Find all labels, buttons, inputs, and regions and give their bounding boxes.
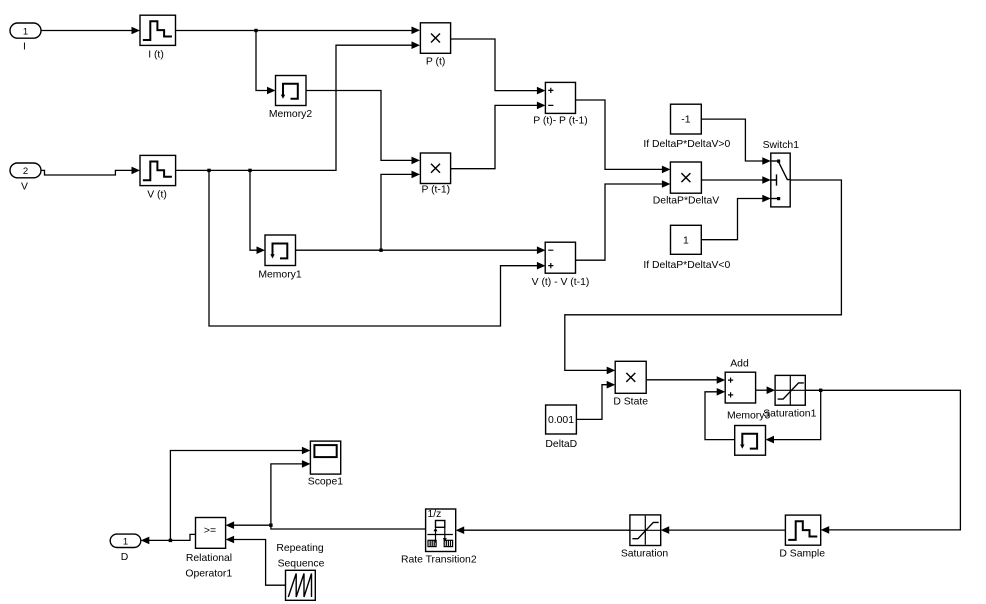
svg-text:Sequence: Sequence: [278, 559, 325, 570]
svg-text:Memory2: Memory2: [269, 109, 313, 120]
svg-text:I: I: [23, 42, 26, 53]
sum V (t) - V (t-1): [532, 242, 590, 288]
wire branch to Memory2: [256, 31, 276, 95]
wire inport2 to V(t): [41, 167, 140, 175]
outport 1 (D): [110, 534, 141, 563]
wire branch to Scope1 input 2: [271, 460, 311, 525]
svg-text:Add: Add: [730, 359, 749, 370]
svg-text:>=: >=: [204, 526, 216, 537]
svg-text:P (t-1): P (t-1): [421, 185, 450, 196]
svg-text:P (t)- P (t-1): P (t)- P (t-1): [533, 116, 587, 127]
wire Memory3 to Add input 2: [705, 388, 735, 440]
svg-text:Rate Transition2: Rate Transition2: [401, 555, 477, 566]
memory Memory3: [727, 411, 771, 456]
svg-text:1/z: 1/z: [428, 509, 442, 520]
wire -1 to switch input 1: [701, 119, 771, 165]
wire V(t) to P(t) input 2: [176, 41, 420, 172]
svg-text:2: 2: [23, 166, 28, 177]
svg-text:DeltaD: DeltaD: [545, 439, 577, 450]
svg-text:Saturation1: Saturation1: [763, 409, 816, 420]
rate transition Rate Transition2: [401, 509, 477, 566]
wire Saturation to Rate Transition2: [456, 526, 630, 534]
svg-text:1: 1: [23, 26, 28, 37]
wire Relational Operator1 to outport D: [141, 534, 196, 544]
wire Repeating Sequence to Relational Operator1 input 2: [226, 536, 286, 586]
wire DeltaP*DeltaV to switch input 2: [701, 176, 770, 184]
svg-text:-1: -1: [681, 115, 690, 126]
wire branch to P(t-1) input 2: [381, 171, 420, 251]
product P (t): [420, 23, 450, 68]
product D State: [613, 361, 648, 407]
svg-text:Scope1: Scope1: [308, 477, 343, 488]
svg-text:DeltaP*DeltaV: DeltaP*DeltaV: [653, 196, 719, 207]
wire I(t) to P(t) input 1: [176, 27, 421, 35]
svg-text:I (t): I (t): [148, 49, 164, 60]
svg-text:If DeltaP*DeltaV<0: If DeltaP*DeltaV<0: [643, 260, 730, 271]
svg-text:V: V: [21, 181, 28, 192]
wire Memory1 to V-sum minus input: [296, 246, 546, 254]
repeating sequence block: [276, 543, 324, 600]
wire switch to D State input 1: [565, 180, 842, 374]
wire inport1 to I(t): [41, 27, 140, 35]
memory Memory1: [258, 235, 302, 280]
zero-order hold D Sample: [779, 515, 825, 559]
svg-text:Switch1: Switch1: [763, 140, 800, 151]
zero-order hold V (t): [140, 155, 176, 200]
wire 1 to switch input 3: [701, 195, 771, 240]
saturation Saturation1: [763, 375, 816, 419]
wire V branch to Memory1: [250, 170, 265, 254]
wire P(t) to sum plus: [451, 39, 546, 94]
svg-text:P (t): P (t): [426, 56, 445, 67]
wire D State to Add input 1: [646, 376, 725, 384]
sum Add: [725, 359, 755, 403]
wire Saturation1 to D Sample (feedback right): [805, 389, 960, 534]
saturation Saturation: [621, 515, 669, 560]
wire P(t-1) to sum minus: [451, 102, 546, 169]
wire V branch to V-sum plus input: [209, 170, 545, 326]
svg-text:D Sample: D Sample: [779, 548, 825, 559]
svg-text:V (t) - V (t-1): V (t) - V (t-1): [532, 277, 590, 288]
relational operator Relational Operator1: [185, 518, 232, 580]
svg-text:Saturation: Saturation: [621, 548, 669, 559]
wire D Sample to Saturation: [661, 526, 786, 534]
svg-text:0.001: 0.001: [548, 415, 574, 426]
svg-text:D State: D State: [613, 396, 648, 407]
product P (t-1): [420, 153, 450, 196]
product DeltaP*DeltaV: [653, 162, 719, 207]
svg-text:If DeltaP*DeltaV>0: If DeltaP*DeltaV>0: [643, 139, 730, 150]
inport 2 (V): [10, 163, 41, 192]
svg-text:Repeating: Repeating: [276, 543, 324, 554]
scope Scope1: [308, 441, 343, 488]
zero-order hold I (t): [140, 15, 176, 60]
svg-text:Relational: Relational: [186, 553, 232, 564]
svg-text:1: 1: [123, 536, 128, 547]
wire 0.001 to D State input 2: [576, 381, 615, 420]
constant 0.001 (DeltaD): [545, 405, 577, 450]
svg-text:Memory1: Memory1: [258, 269, 302, 280]
wire branch to Memory3: [766, 390, 821, 443]
svg-text:Operator1: Operator1: [185, 568, 232, 579]
svg-text:1: 1: [683, 235, 689, 246]
constant -1: [643, 104, 730, 150]
sum P (t)- P (t-1): [533, 82, 587, 126]
wire Add to Saturation1: [756, 386, 776, 394]
inport 1 (I): [10, 23, 41, 53]
wire Rate Transition2 to Relational Operator1 input 1: [226, 521, 426, 529]
wire branch to Scope1 input 1: [170, 447, 310, 541]
svg-text:V (t): V (t): [147, 190, 167, 201]
wire Memory2 to P(t-1) input 1: [306, 91, 420, 165]
svg-text:D: D: [121, 552, 129, 563]
wire sum P to DeltaP*DeltaV input 1: [576, 100, 671, 173]
svg-text:Memory3: Memory3: [727, 411, 771, 422]
switch Switch1: [763, 140, 800, 207]
constant 1: [643, 225, 730, 270]
wire sum V to DeltaP*DeltaV input 2: [576, 180, 671, 260]
memory Memory2: [269, 76, 313, 121]
